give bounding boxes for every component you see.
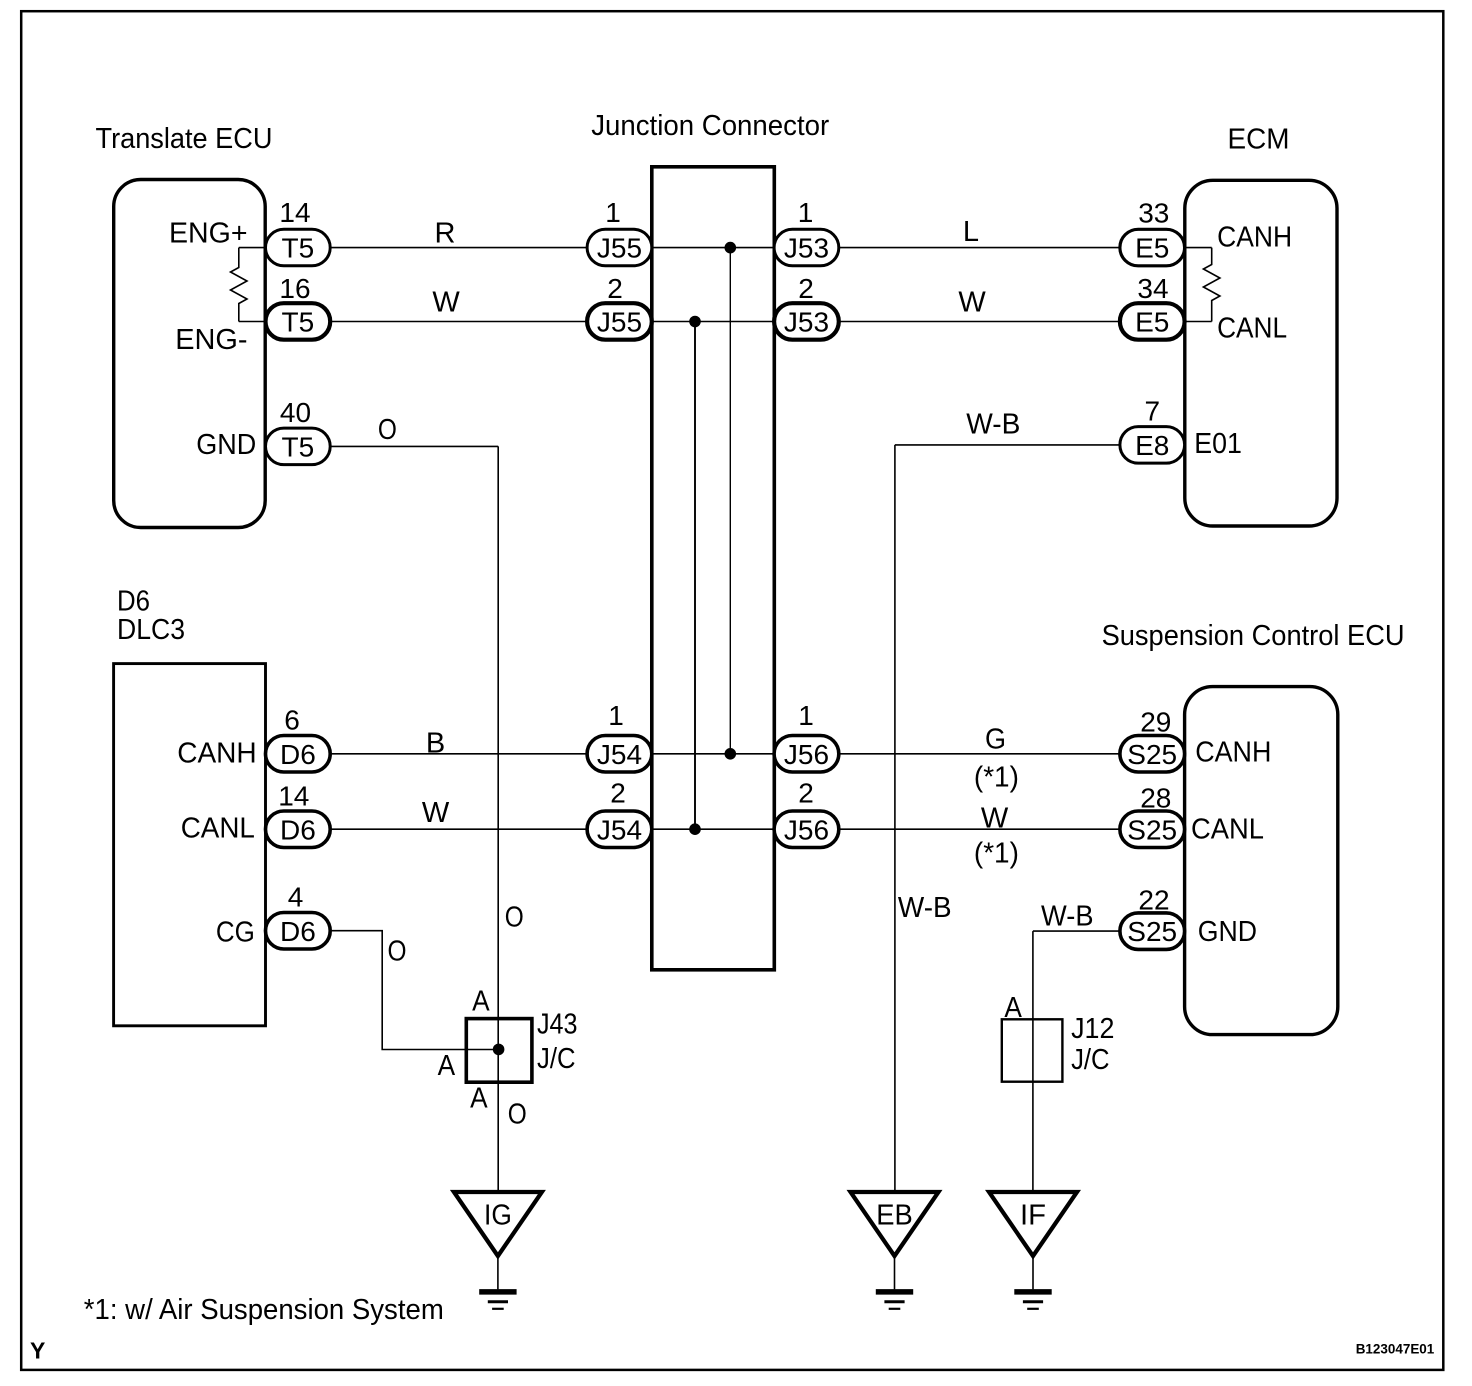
connector T5 pin 16 xyxy=(266,303,331,340)
connector J53 pin 2 xyxy=(774,303,839,340)
svg-text:D6: D6 xyxy=(280,916,316,947)
svg-text:D6: D6 xyxy=(280,814,316,845)
svg-text:ENG+: ENG+ xyxy=(169,218,248,250)
svg-text:O: O xyxy=(388,936,407,968)
connector J54 pin 2 xyxy=(587,811,652,848)
svg-text:2: 2 xyxy=(607,273,623,304)
svg-text:J55: J55 xyxy=(597,307,642,338)
svg-text:1: 1 xyxy=(798,197,814,228)
wire W-B : vertical through J12 down to IF ground xyxy=(1032,931,1034,1190)
svg-text:Translate ECU: Translate ECU xyxy=(96,123,273,155)
svg-text:EB: EB xyxy=(876,1199,913,1231)
svg-text:T5: T5 xyxy=(282,307,315,338)
svg-text:E01: E01 xyxy=(1194,428,1242,460)
svg-text:J/C: J/C xyxy=(537,1043,576,1075)
svg-text:16: 16 xyxy=(279,273,310,304)
svg-text:J43: J43 xyxy=(537,1009,578,1041)
svg-text:40: 40 xyxy=(280,397,311,428)
svg-text:14: 14 xyxy=(278,781,309,812)
svg-text:1: 1 xyxy=(798,700,814,731)
svg-text:W: W xyxy=(432,287,460,319)
svg-text:J54: J54 xyxy=(597,739,642,770)
svg-text:1: 1 xyxy=(608,700,624,731)
ground symbol IF xyxy=(1014,1256,1051,1309)
svg-text:D6: D6 xyxy=(117,586,150,618)
junction dot J55-2 branch xyxy=(689,316,701,328)
svg-text:CANL: CANL xyxy=(1217,312,1287,344)
ground triangle IF xyxy=(989,1192,1077,1256)
junction dot J56-1 branch xyxy=(725,748,737,760)
svg-text:28: 28 xyxy=(1140,783,1171,814)
connector S25 pin 22 xyxy=(1120,913,1185,950)
svg-text:W: W xyxy=(958,286,986,318)
svg-text:GND: GND xyxy=(196,429,256,461)
svg-text:Junction Connector: Junction Connector xyxy=(591,110,829,142)
connector T5 pin 14 xyxy=(266,229,331,265)
connector J54 pin 1 xyxy=(587,736,652,773)
svg-text:CANH: CANH xyxy=(1217,222,1292,254)
svg-text:IG: IG xyxy=(484,1199,512,1231)
svg-text:ECM: ECM xyxy=(1228,124,1290,156)
svg-text:Suspension Control ECU: Suspension Control ECU xyxy=(1102,620,1405,652)
svg-text:W-B: W-B xyxy=(1041,901,1094,933)
wire B / G : CANH row, D6-6 to J54-1 to J56-1 to S25-29 xyxy=(331,753,1120,755)
ECM block xyxy=(1185,180,1337,526)
svg-text:IF: IF xyxy=(1020,1199,1046,1231)
svg-text:J53: J53 xyxy=(784,233,829,264)
svg-text:J/C: J/C xyxy=(1071,1044,1110,1076)
svg-text:S25: S25 xyxy=(1127,739,1177,770)
connector E5 pin 34 xyxy=(1120,303,1185,340)
svg-text:GND: GND xyxy=(1198,916,1257,948)
svg-text:A: A xyxy=(470,1083,488,1115)
resistor (terminating, Translate ECU) xyxy=(231,248,248,322)
svg-text:14: 14 xyxy=(279,197,310,228)
svg-text:2: 2 xyxy=(798,778,814,809)
wire O : CG D6-4 to J43 xyxy=(331,931,499,1050)
ground symbol IG xyxy=(479,1256,516,1309)
svg-text:29: 29 xyxy=(1140,707,1171,738)
svg-text:(*1): (*1) xyxy=(974,837,1019,869)
junction dot J53-1 branch xyxy=(725,242,737,254)
junction block J43 xyxy=(466,1019,532,1083)
Suspension Control ECU block xyxy=(1185,687,1338,1035)
svg-text:W-B: W-B xyxy=(966,409,1020,441)
svg-text:7: 7 xyxy=(1145,396,1161,427)
ground triangle EB xyxy=(851,1192,939,1256)
svg-text:ENG-: ENG- xyxy=(175,324,247,356)
svg-text:34: 34 xyxy=(1137,273,1168,304)
svg-text:O: O xyxy=(505,902,524,934)
svg-text:W: W xyxy=(981,803,1009,835)
junction dot J54-2 branch xyxy=(689,823,701,835)
junction block J12 xyxy=(1002,1019,1063,1081)
svg-text:CANL: CANL xyxy=(1191,814,1264,846)
svg-text:T5: T5 xyxy=(282,432,315,463)
svg-text:1: 1 xyxy=(605,197,621,228)
svg-text:L: L xyxy=(963,216,979,248)
wire O : vertical down to J43 and IG xyxy=(497,446,499,1190)
wire W-B : E8-7 E01 horizontal xyxy=(895,444,1120,446)
svg-text:(*1): (*1) xyxy=(974,762,1019,794)
connector J55 pin 2 xyxy=(587,303,652,340)
wire O : T5-40 GND horizontal xyxy=(330,445,499,447)
svg-text:S25: S25 xyxy=(1127,814,1177,845)
connector D6 pin 6 xyxy=(266,736,331,773)
svg-text:W-B: W-B xyxy=(898,892,952,924)
svg-text:T5: T5 xyxy=(282,233,315,264)
Junction Connector block xyxy=(652,167,775,970)
svg-text:S25: S25 xyxy=(1127,916,1177,947)
junction dot inside J43 xyxy=(493,1044,505,1056)
connector J56 pin 2 xyxy=(774,811,839,848)
svg-text:22: 22 xyxy=(1138,885,1169,916)
connector S25 pin 29 xyxy=(1120,736,1185,773)
connector J53 pin 1 xyxy=(774,229,839,265)
svg-text:R: R xyxy=(435,218,456,250)
svg-text:W: W xyxy=(422,797,450,829)
svg-text:CANH: CANH xyxy=(177,738,257,770)
svg-text:CG: CG xyxy=(216,917,255,949)
wire W / W : CANL row, D6-14 to J54-2 to J56-2 to S25-28 xyxy=(331,828,1120,830)
connector T5 pin 40 xyxy=(266,428,331,465)
svg-text:6: 6 xyxy=(284,705,300,736)
connector E8 pin 7 xyxy=(1120,427,1185,464)
connector S25 pin 28 xyxy=(1120,811,1185,848)
ground triangle IG xyxy=(454,1192,542,1256)
svg-text:D6: D6 xyxy=(280,739,316,770)
svg-text:2: 2 xyxy=(610,778,626,809)
svg-text:Y: Y xyxy=(30,1338,45,1364)
svg-text:G: G xyxy=(985,724,1006,756)
svg-text:J53: J53 xyxy=(784,307,829,338)
svg-text:4: 4 xyxy=(288,882,304,913)
svg-text:O: O xyxy=(378,414,397,446)
wire W-B : S25-22 GND horizontal xyxy=(1033,930,1120,932)
svg-text:DLC3: DLC3 xyxy=(117,614,185,646)
svg-text:E5: E5 xyxy=(1135,307,1169,338)
svg-text:B: B xyxy=(426,728,445,760)
connector E5 pin 33 xyxy=(1120,229,1185,265)
resistor (terminating, ECM) xyxy=(1203,248,1220,322)
DLC3 connector block D6 xyxy=(114,664,266,1026)
connector D6 pin 4 xyxy=(266,913,331,950)
svg-text:J12: J12 xyxy=(1071,1013,1114,1045)
svg-text:E5: E5 xyxy=(1135,233,1169,264)
connector J55 pin 1 xyxy=(587,229,652,265)
Translate ECU block xyxy=(114,180,266,528)
wire W-B : vertical down to EB ground xyxy=(894,445,896,1191)
svg-text:J56: J56 xyxy=(784,814,829,845)
svg-text:J55: J55 xyxy=(597,233,642,264)
wire W / W : ENG- row, T5-16 to J55-2 to J53-2 to E5-34 xyxy=(239,321,1212,323)
svg-text:*1: w/ Air Suspension System: *1: w/ Air Suspension System xyxy=(84,1294,444,1326)
svg-text:B123047E01: B123047E01 xyxy=(1356,1340,1435,1356)
svg-text:J56: J56 xyxy=(784,739,829,770)
svg-text:CANL: CANL xyxy=(181,813,255,845)
ground symbol EB xyxy=(876,1256,913,1309)
svg-text:O: O xyxy=(508,1099,527,1131)
svg-text:A: A xyxy=(1004,992,1022,1024)
svg-text:33: 33 xyxy=(1138,198,1169,229)
connector J56 pin 1 xyxy=(774,736,839,773)
svg-text:2: 2 xyxy=(798,273,814,304)
svg-text:A: A xyxy=(472,986,490,1018)
svg-text:CANH: CANH xyxy=(1195,736,1271,768)
svg-text:E8: E8 xyxy=(1135,430,1169,461)
wire : junction connector internal link J53-1 to J56-1 xyxy=(729,248,731,754)
wire : junction connector internal link J55-2 to J54-2 xyxy=(694,322,696,830)
wire R / L : ENG+ row, T5-14 to J55-1 to J53-1 to E5-33 xyxy=(239,247,1212,249)
svg-text:A: A xyxy=(438,1050,456,1082)
connector D6 pin 14 xyxy=(266,811,331,848)
svg-text:J54: J54 xyxy=(597,814,642,845)
